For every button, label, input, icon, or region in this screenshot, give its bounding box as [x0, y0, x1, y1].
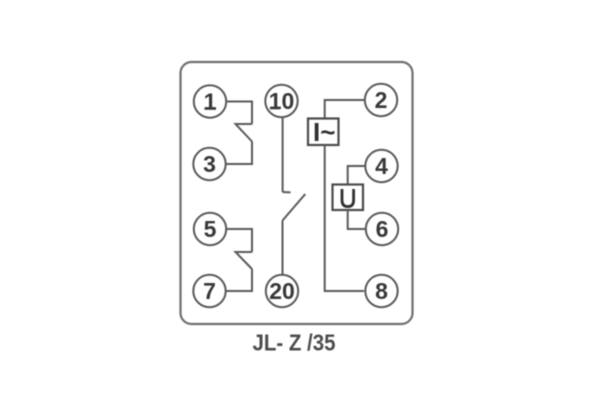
terminal 1 — [194, 85, 226, 117]
wire: coil U to terminal 6 — [348, 210, 366, 229]
svg-text:JL- Z /35: JL- Z /35 — [253, 330, 336, 356]
svg-text:5: 5 — [204, 216, 217, 242]
switch S1 fixed contact seat — [283, 191, 291, 193]
terminal 5 — [194, 213, 226, 245]
wire: terminal 5 to contact K2 — [227, 229, 253, 252]
terminal 7 — [193, 275, 225, 307]
wire: terminal 2 to coil I~ — [325, 100, 365, 119]
wire: terminal 4 to coil U — [348, 166, 366, 185]
relay case outline — [181, 62, 413, 324]
svg-text:4: 4 — [375, 153, 388, 179]
svg-text:1: 1 — [204, 89, 217, 115]
terminal 10 — [265, 85, 297, 117]
voltage coil box U — [333, 185, 364, 211]
wire: terminal 10 down to switch S1 — [282, 117, 284, 192]
terminal 2 — [365, 84, 397, 116]
svg-text:3: 3 — [203, 151, 216, 177]
terminal 20 — [266, 275, 298, 307]
svg-text:20: 20 — [269, 278, 295, 304]
svg-text:2: 2 — [375, 87, 388, 113]
terminal 4 — [365, 150, 397, 182]
contact K2 (pins 5-7) — [236, 252, 253, 269]
switch S1 moving blade (pins 10-20) — [283, 194, 306, 221]
wire: terminal 1 to contact K1 — [227, 102, 253, 125]
svg-text:10: 10 — [269, 88, 295, 114]
wire: contact K2 to terminal 7 — [226, 269, 252, 291]
contact K1 (pins 1-3) — [236, 124, 253, 142]
current coil box I~ — [308, 119, 339, 146]
wire: switch S1 to terminal 20 — [282, 221, 284, 275]
terminal 3 — [193, 148, 225, 180]
svg-text:8: 8 — [375, 278, 388, 304]
svg-text:7: 7 — [203, 278, 216, 304]
wire: coil I~ to terminal 8 — [325, 145, 364, 291]
coil label U — [342, 189, 354, 207]
svg-text:I~: I~ — [313, 117, 335, 147]
wire: contact K1 to terminal 3 — [226, 142, 252, 165]
terminal 8 — [365, 275, 397, 307]
terminal 6 — [366, 213, 398, 245]
svg-text:6: 6 — [376, 216, 389, 242]
